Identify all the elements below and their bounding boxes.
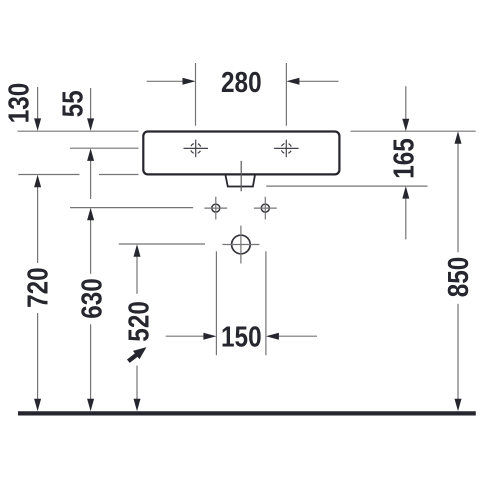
wire: dim 150 right arrow shaft — [277, 335, 317, 337]
dimension 630 — [77, 208, 109, 411]
arrowhead dim 520 down — [134, 399, 141, 412]
wire: dim 165 bottom arrow shaft — [405, 198, 407, 239]
wire: dim 130 top arrow shaft — [37, 87, 39, 119]
fixing hole right — [254, 197, 277, 220]
wire: extension line drain center left — [119, 243, 205, 245]
dimension 165 — [389, 86, 421, 239]
fixing hole left — [204, 197, 227, 220]
arrowhead dim 280 right — [286, 78, 299, 85]
wire: extension line 150 right vertical — [265, 251, 267, 355]
wire: dim 720 line upper segment — [37, 187, 39, 263]
dimension 850 — [443, 131, 475, 411]
wire: dim 55 bottom arrow shaft — [90, 160, 92, 199]
drain outlet circle — [222, 226, 259, 264]
wire: dim 280 right arrow shaft — [298, 80, 339, 82]
arrowhead dim 630 down — [87, 399, 94, 412]
svg-text:150: 150 — [221, 321, 262, 353]
svg-text:165: 165 — [389, 138, 421, 179]
svg-text:520: 520 — [123, 301, 155, 342]
arrowhead dim 165 down — [402, 119, 409, 132]
leader arrow (diagonal) for 520 — [125, 343, 150, 365]
dimension 130 — [4, 83, 42, 131]
arrowhead dim 55 down — [87, 118, 94, 130]
arrowhead dim 150 right-pointing — [203, 333, 216, 340]
svg-text:280: 280 — [221, 67, 262, 99]
wire: extension line basin bottom left (segment 1) — [18, 174, 79, 176]
wire: dim 630 line upper segment — [90, 220, 92, 274]
wire: dim 850 line lower segment — [457, 304, 459, 400]
wire: extension line basin top right — [351, 130, 476, 132]
arrowhead dim 130 down — [34, 118, 41, 130]
dimension 720 — [23, 175, 55, 411]
arrowhead dim 55 up — [87, 148, 94, 161]
wire: dim 280 left arrow shaft — [147, 80, 184, 82]
faucet hole center mark right — [274, 140, 299, 158]
arrowhead dim 630 up — [87, 208, 94, 221]
wire: extension line 280 left vertical — [195, 63, 197, 126]
arrowhead dim 280 left — [183, 78, 196, 85]
wire: extension line fixing holes left — [70, 207, 193, 209]
wire: dim 520 line lower segment — [136, 366, 138, 400]
wire: extension line basin top left — [18, 130, 139, 132]
arrowhead dim 165 up — [402, 186, 409, 199]
centerline through siphon — [240, 161, 242, 192]
arrowhead dim 850 up — [455, 131, 462, 144]
arrowhead dim 850 down — [455, 399, 462, 412]
wire: dim 850 line upper segment — [457, 143, 459, 252]
svg-text:55: 55 — [58, 90, 90, 117]
dimension 520 — [123, 244, 155, 411]
wire: dim 165 top arrow shaft — [405, 86, 407, 119]
wire: extension line faucet axis left — [70, 147, 139, 149]
arrowhead dim 520 up — [134, 244, 141, 257]
svg-text:630: 630 — [77, 278, 109, 319]
svg-text:850: 850 — [443, 257, 475, 298]
wire: dim 520 line upper segment — [136, 256, 138, 294]
wire: dim 630 line lower segment — [90, 324, 92, 399]
siphon cover trapezoid — [226, 175, 255, 186]
wire: extension line basin bottom left (segment 2) — [99, 174, 139, 176]
wire: extension line siphon bottom right — [266, 185, 427, 187]
wire: extension line 150 left vertical — [215, 251, 217, 355]
wire: dim 150 left arrow shaft — [166, 335, 205, 337]
wire: dim 55 top arrow shaft — [90, 88, 92, 119]
washbasin outline (front view) — [143, 132, 339, 175]
dimension 55 — [58, 88, 95, 199]
svg-text:720: 720 — [23, 267, 55, 308]
arrowhead dim 150 left-pointing — [266, 333, 279, 340]
wire: dim 720 line lower segment — [37, 313, 39, 400]
dimension 280 — [147, 67, 339, 99]
faucet hole center mark left — [184, 140, 209, 158]
floor line — [18, 411, 476, 415]
arrowhead dim 720 up — [34, 175, 41, 188]
dimension 150 — [166, 321, 317, 353]
svg-text:130: 130 — [4, 83, 36, 124]
arrowhead dim 720 down — [34, 399, 41, 412]
wire: extension line 280 right vertical — [285, 63, 287, 126]
